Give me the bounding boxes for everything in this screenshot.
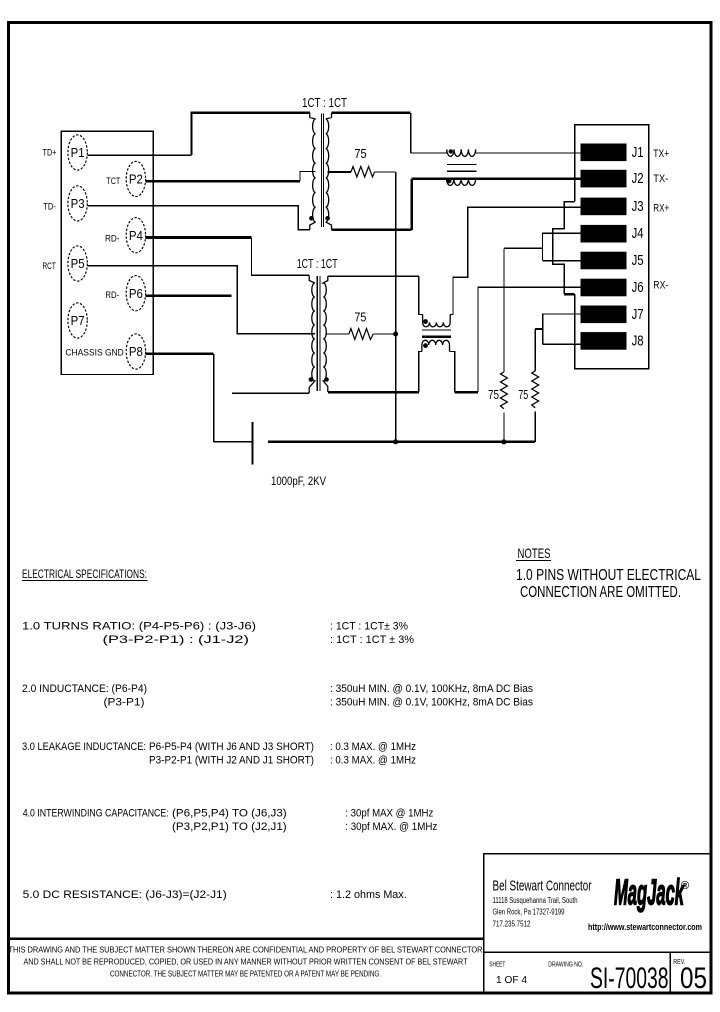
svg-text:TD-: TD- [43,202,56,213]
choke L2 bottom phase dot [423,343,428,348]
T2 secondary phase dot [324,377,329,382]
wire R4 to center-tap bus [373,333,395,335]
wire J5 [543,260,581,262]
svg-text:P4: P4 [129,228,143,243]
svg-text:717.235.7512: 717.235.7512 [493,920,531,929]
wire T1 secondary center tap to R3 [328,171,351,173]
svg-text:P6: P6 [129,286,143,301]
wire riser to J2 row [410,179,413,230]
choke L2 core [422,329,451,331]
svg-text:http://www.stewartconnector.co: http://www.stewartconnector.com [588,922,702,932]
svg-text:P7: P7 [71,313,85,328]
wire center-tap bus vertical [395,172,397,442]
svg-text:CONNECTOR. THE SUBJECT MATTER: CONNECTOR. THE SUBJECT MATTER MAY BE PAT… [110,969,381,979]
svg-text:J4: J4 [632,226,644,242]
svg-text:THIS DRAWING AND THE SUBJECT M: THIS DRAWING AND THE SUBJECT MATTER SHOW… [9,945,483,955]
resistor R2 leads [534,329,536,442]
junction bus / R1 [501,439,506,444]
pin J2 [581,170,627,188]
svg-text:11118 Susquehanna Trail, South: 11118 Susquehanna Trail, South [493,896,578,905]
svg-text:5.0 DC RESISTANCE: (J6-J3)=(J2: 5.0 DC RESISTANCE: (J6-J3)=(J2-J1) [23,889,227,901]
svg-text:05: 05 [680,962,707,995]
wire T2 secondary top to RX choke [328,275,419,277]
svg-text:: 1CT : 1CT ± 3%: : 1CT : 1CT ± 3% [330,634,414,646]
transformer T1 primary winding [310,113,316,230]
svg-text:1000pF, 2KV: 1000pF, 2KV [271,476,326,488]
wire TX riser down to J1 row [410,113,412,153]
svg-text:Glen Rock, Pa 17327-9199: Glen Rock, Pa 17327-9199 [493,908,565,917]
svg-text:: 1CT : 1CT± 3%: : 1CT : 1CT± 3% [330,620,408,632]
transformer T1 secondary winding [326,113,332,230]
svg-text:: 350uH MIN. @ 0.1V, 100KHz, 8: : 350uH MIN. @ 0.1V, 100KHz, 8mA DC Bias [330,683,533,695]
choke L2 top phase dot [423,319,428,324]
svg-text:2.0 INDUCTANCE: (P6-P4): 2.0 INDUCTANCE: (P6-P4) [22,683,147,695]
wire T2 primary bottom [232,392,309,394]
wire J1 row (TX+) [411,152,581,154]
svg-text:1 OF 4: 1 OF 4 [496,974,527,986]
svg-text:: 0.3 MAX. @ 1MHz: : 0.3 MAX. @ 1MHz [330,755,416,767]
svg-text:MagJack: MagJack [614,872,685,913]
svg-text:SI-70038: SI-70038 [590,962,669,995]
junction center-tap bus [393,332,398,337]
svg-text:RD-: RD- [105,290,119,301]
confidential strip top edge [10,937,484,940]
wire J4 [543,233,581,261]
wire choke L2 bottom to J6 riser thick [455,391,478,394]
svg-text:(P3-P2-P1) : (J1-J2): (P3-P2-P1) : (J1-J2) [103,634,250,646]
choke L1 bottom winding [447,179,476,186]
svg-text:ELECTRICAL SPECIFICATIONS:: ELECTRICAL SPECIFICATIONS: [22,569,147,581]
choke L2 core thick [422,335,451,338]
wire P6 thick [146,294,232,297]
title block rev divider [669,952,671,992]
wire J7 [543,314,581,344]
svg-text:J5: J5 [632,253,644,269]
resistor R3 75 (TX termination) [351,167,375,178]
pin P2 [126,161,145,196]
resistor R4 75 (RX termination) [349,329,373,340]
svg-text:P6-P5-P4 (WITH J6 AND J3 SHORT: P6-P5-P4 (WITH J6 AND J3 SHORT) [149,741,314,753]
pin J7 [581,306,627,324]
svg-text:RX-: RX- [653,280,668,292]
pin J4 [581,225,627,243]
pin P4 [126,218,145,253]
svg-text:75: 75 [354,309,366,324]
svg-text:1.0 TURNS RATIO: (P4-P5-P6) :: 1.0 TURNS RATIO: (P4-P5-P6) : (J3-J6) [22,620,256,632]
wire P4 thick [146,236,252,239]
svg-text:TCT: TCT [106,176,120,187]
wire J8 [543,343,581,345]
junction bus / center-tap [393,439,398,444]
svg-text:P2: P2 [129,172,143,187]
pin J5 [581,252,627,270]
wire J2 row (TX-) thick [412,178,581,181]
pin P8 [126,334,145,369]
title block outline [484,854,710,992]
svg-text:4.0 INTERWINDING CAPACITANCE:: 4.0 INTERWINDING CAPACITANCE: [23,808,169,820]
svg-text:SHEET: SHEET [489,959,505,968]
pin P5 [68,246,87,281]
svg-text:(P3-P1): (P3-P1) [104,696,145,708]
svg-text:P5: P5 [71,256,85,271]
svg-text:RCT: RCT [43,261,56,272]
svg-text:CHASSIS GND: CHASSIS GND [65,347,124,358]
choke L1 top winding [447,149,476,156]
svg-text:AND SHALL NOT BE REPRODUCED, C: AND SHALL NOT BE REPRODUCED, COPIED, OR … [24,957,469,967]
pin J8 [581,332,627,350]
choke L2 bottom winding leads [419,352,455,393]
svg-text:DRAWING NO.: DRAWING NO. [548,959,583,968]
pin P6 [126,276,145,311]
svg-text:P3-P2-P1 (WITH J2 AND J1 SHORT: P3-P2-P1 (WITH J2 AND J1 SHORT) [149,755,314,767]
pin P3 [68,186,87,221]
pin J1 [581,144,627,162]
T1 primary phase dot [309,216,314,221]
svg-text:J8: J8 [632,333,644,349]
svg-text:1CT : 1CT: 1CT : 1CT [302,96,347,110]
svg-text:J7: J7 [632,307,644,323]
wire R2 top link to J7-J8 tie [535,328,543,330]
choke L2 bottom winding [422,340,450,351]
J box notch lower thick [564,293,574,296]
transformer T1 core [322,114,324,228]
wire P4 drop to T2 primary top [252,238,310,276]
choke L1 bottom phase dot [446,178,451,183]
wire T1 secondary top to TX riser [332,112,411,114]
connector box P1-P8 [61,131,153,374]
J box notch upper [564,202,574,229]
svg-text:J1: J1 [632,145,644,161]
svg-text:: 350uH MIN. @ 0.1V, 100KHz, 8: : 350uH MIN. @ 0.1V, 100KHz, 8mA DC Bias [330,696,533,708]
wire P3 to T1 primary bottom [87,206,309,230]
svg-text:RX+: RX+ [653,203,669,215]
svg-text:CONNECTION ARE OMITTED.: CONNECTION ARE OMITTED. [520,584,681,601]
svg-text:J2: J2 [632,171,644,187]
wire T2 secondary bottom thick [328,391,419,394]
svg-text:1CT : 1CT: 1CT : 1CT [297,257,338,271]
wire P2 (TCT) thick [146,180,300,183]
T1 secondary phase dot [325,216,330,221]
svg-text:(P6,P5,P4) TO (J6,J3): (P6,P5,P4) TO (J6,J3) [172,808,287,820]
svg-text:TX-: TX- [653,173,668,185]
svg-text:®: ® [681,880,689,892]
svg-text:J6: J6 [632,280,644,296]
J connector box outline [575,125,649,369]
svg-text:: 30pf MAX @ 1MHz: : 30pf MAX @ 1MHz [345,808,433,820]
svg-text:P3: P3 [71,196,85,211]
wire R3 to center-tap bus [375,171,396,173]
choke L1 top phase dot [449,149,453,153]
transformer T2 secondary winding [323,276,328,392]
choke L2 top winding leads [419,276,453,314]
svg-text:J3: J3 [632,199,644,215]
wire P1 to riser [87,154,191,156]
pin J3 [581,198,627,216]
pin P1 [68,135,87,170]
J box notch middle [553,229,565,294]
pin P7 [68,303,87,338]
svg-text:75: 75 [518,387,528,402]
wire P2 jog to T1 primary center tap [300,171,316,181]
svg-text:TX+: TX+ [653,148,669,160]
wire R1 top link to J4-J5 tie [504,247,543,249]
svg-text:1.0 PINS WITHOUT ELECTRICAL: 1.0 PINS WITHOUT ELECTRICAL [516,567,701,584]
svg-text:: 0.3 MAX. @ 1MHz: : 0.3 MAX. @ 1MHz [330,741,416,753]
resistor R1 leads [503,248,505,441]
wire J6 (RX-) [478,287,581,392]
svg-text:P1: P1 [71,145,85,160]
choke L1 core [447,164,477,171]
title block divider [484,951,712,953]
transformer T2 core [317,276,320,391]
svg-text:TD+: TD+ [43,148,57,159]
wire ground bus thick [268,441,535,443]
wire chassis drop to capacitor [213,354,215,442]
pin J6 [581,279,627,297]
resistor R2 75 (J7-J8 termination) [532,371,539,408]
capacitor C1 plate [251,422,253,465]
choke L2 top winding [423,314,451,327]
T2 primary phase dot [309,377,314,382]
svg-text:: 30pf MAX. @ 1MHz: : 30pf MAX. @ 1MHz [345,821,437,833]
svg-text:NOTES: NOTES [518,545,551,561]
wire J3 (RX+) to choke L2 [453,207,581,314]
wire P5 to T2 primary center tap [87,266,314,334]
capacitor C1 left wire [214,441,252,443]
svg-text:Bel Stewart Connector: Bel Stewart Connector [493,878,592,895]
wire T1 secondary bottom thick [332,229,412,232]
wire T2 secondary center tap [326,333,349,335]
svg-text:75: 75 [488,387,499,402]
svg-text:3.0 LEAKAGE INDUCTANCE:: 3.0 LEAKAGE INDUCTANCE: [22,741,146,753]
resistor R1 75 (J4-J5 termination) [501,372,508,409]
svg-text:(P3,P2,P1) TO (J2,J1): (P3,P2,P1) TO (J2,J1) [172,821,287,833]
svg-text:P8: P8 [129,344,143,359]
transformer T2 primary winding [309,275,315,393]
svg-text:75: 75 [354,146,366,161]
wire P8 chassis gnd thick [146,353,214,356]
wire riser and top run to T1 primary [191,113,309,155]
svg-text:: 1.2 ohms Max.: : 1.2 ohms Max. [330,889,407,901]
svg-text:RD-: RD- [105,233,120,244]
